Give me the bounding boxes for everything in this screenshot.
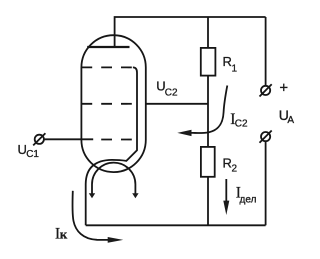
svg-text:2: 2 bbox=[232, 164, 238, 175]
svg-text:к: к bbox=[60, 226, 68, 241]
svg-text:+: + bbox=[279, 80, 288, 97]
svg-text:R: R bbox=[223, 54, 232, 69]
svg-text:C2: C2 bbox=[235, 119, 248, 130]
svg-text:R: R bbox=[223, 156, 232, 171]
svg-text:1: 1 bbox=[232, 63, 238, 74]
svg-text:A: A bbox=[287, 115, 294, 126]
svg-text:C1: C1 bbox=[26, 149, 39, 160]
svg-text:дел: дел bbox=[240, 195, 257, 206]
svg-text:C2: C2 bbox=[165, 87, 178, 98]
